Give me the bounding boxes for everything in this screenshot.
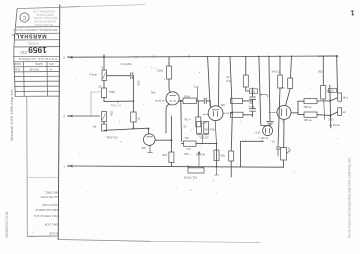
svg-text:18: 18 <box>226 76 229 79</box>
svg-text:1 pn: 1 pn <box>194 84 200 88</box>
svg-text:TEL 0908 375411: TEL 0908 375411 <box>34 23 53 26</box>
svg-text:P.Amp: P.Amp <box>90 73 98 77</box>
svg-text:C8: C8 <box>98 86 102 89</box>
svg-text:Marshall 1959 1986 Amp.sch: Marshall 1959 1986 Amp.sch <box>9 89 14 141</box>
svg-text:09-2-87: 09-2-87 <box>29 67 39 71</box>
svg-text:*R5: *R5 <box>185 137 190 140</box>
svg-text:N: N <box>50 67 52 71</box>
svg-text:2 X: 2 X <box>281 86 285 90</box>
svg-text:2M2: 2M2 <box>318 71 323 74</box>
svg-text:am: am <box>343 111 346 114</box>
svg-text:*R51? 63: *R51? 63 <box>106 135 118 139</box>
svg-text:VOLTS ±10%: VOLTS ±10% <box>42 203 58 207</box>
svg-text:DATE: DATE <box>35 62 42 66</box>
svg-text:PRE: PRE <box>110 90 116 94</box>
svg-text:SMC 1834: SMC 1834 <box>44 223 58 227</box>
svg-text:1M: 1M <box>93 124 97 128</box>
svg-text:P.MODEL: P.MODEL <box>27 41 39 45</box>
svg-text:90a: 90a <box>151 90 156 94</box>
svg-text:2: 2 <box>63 56 65 60</box>
svg-text:* 24: * 24 <box>271 141 276 144</box>
svg-text:50: 50 <box>184 125 187 129</box>
svg-text:63: 63 <box>137 117 140 121</box>
svg-text:1: 1 <box>350 9 354 18</box>
svg-text:PM.A 78555 12:19 ta: PM.A 78555 12:19 ta <box>33 214 58 218</box>
svg-text:S-1135: S-1135 <box>49 232 58 236</box>
svg-text:141: 141 <box>251 90 256 94</box>
svg-text:(p) Penta: (p) Penta <box>329 123 340 127</box>
svg-text:*Lvup: *Lvup <box>249 106 256 109</box>
svg-text:MOD: MOD <box>14 62 21 66</box>
svg-text:DRAWING NUMBER: DRAWING NUMBER <box>18 57 57 61</box>
svg-text:220k: 220k <box>109 111 112 117</box>
svg-text:C11 220k: C11 220k <box>121 62 133 66</box>
svg-text:249 C31: 249 C31 <box>272 70 282 73</box>
svg-text:33k +: 33k + <box>184 152 191 156</box>
svg-text:7n: 7n <box>101 67 104 70</box>
svg-text:*-100 2k: *-100 2k <box>259 136 269 140</box>
svg-text:488 1a: 488 1a <box>304 118 312 122</box>
svg-text:*M2 470k: *M2 470k <box>204 127 216 131</box>
svg-text:MARSHALL: MARSHALL <box>11 32 46 38</box>
svg-text:BLETCHLEY, MILTON: BLETCHLEY, MILTON <box>33 16 57 19</box>
svg-text:820: 820 <box>163 153 168 157</box>
svg-text:B: B <box>288 147 290 151</box>
svg-text:29/08/2002 19:34: 29/08/2002 19:34 <box>5 211 9 238</box>
svg-text:JT61: JT61 <box>328 118 334 122</box>
svg-text:110: 110 <box>330 90 335 93</box>
svg-text:*R1 4: *R1 4 <box>184 118 191 122</box>
svg-text:560k: 560k <box>184 95 191 99</box>
svg-text:A: A <box>63 115 65 119</box>
svg-text:220k: 220k <box>137 80 140 86</box>
svg-text:M20-S6: M20-S6 <box>196 152 206 156</box>
svg-text:JIM MARSHALL LTD: JIM MARSHALL LTD <box>33 9 56 12</box>
svg-text:T16: T16 <box>186 147 191 151</box>
svg-text:d8+a: d8+a <box>343 96 349 99</box>
svg-text:ALT 50k POTS: ALT 50k POTS <box>41 195 58 199</box>
svg-text:A-10: A-10 <box>14 67 20 71</box>
svg-text:1959: 1959 <box>28 45 47 55</box>
svg-text:PRE CHG 820R 63: PRE CHG 820R 63 <box>35 208 58 212</box>
svg-text:MK2 SPEC.: MK2 SPEC. <box>44 191 58 195</box>
svg-text:100k: 100k <box>157 69 164 73</box>
svg-text:KEYNES ENGLAND: KEYNES ENGLAND <box>34 20 56 23</box>
svg-text:82k: 82k <box>142 146 147 150</box>
svg-text:56k: 56k <box>221 154 226 158</box>
svg-text:FIRST AVENUE: FIRST AVENUE <box>36 13 53 16</box>
svg-text:56k: 56k <box>203 120 208 124</box>
svg-text:*200 3/6: *200 3/6 <box>199 136 209 140</box>
svg-text:C: C <box>22 14 26 20</box>
svg-text:488 1a: 488 1a <box>304 105 312 109</box>
svg-text:400: 400 <box>221 103 226 107</box>
svg-text:+1.5k: +1.5k <box>254 131 261 135</box>
svg-text:M 1k2 T16: M 1k2 T16 <box>184 175 198 179</box>
svg-text:ISS: ISS <box>49 62 54 66</box>
svg-text:file://C:/FaxCool/schematic/Ma: file://C:/FaxCool/schematic/Marshall 195… <box>347 157 351 238</box>
svg-text:STD: STD <box>20 50 27 54</box>
svg-text:C31: C31 <box>226 80 231 83</box>
svg-text:JIM MARSHALL (PRODUCTS) LTD: JIM MARSHALL (PRODUCTS) LTD <box>13 28 57 32</box>
svg-text:1: 1 <box>63 165 65 169</box>
svg-text:*R88 C13: *R88 C13 <box>110 103 122 107</box>
